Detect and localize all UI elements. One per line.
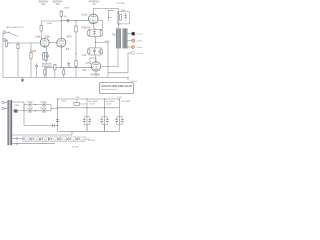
wire OPT B+ stub	[113, 34, 116, 36]
heater box B4	[50, 137, 58, 141]
tube V2 label	[53, 2, 63, 6]
fuse F1 dark	[14, 109, 17, 112]
wire bridge output	[51, 107, 58, 109]
heater box B7	[78, 137, 86, 141]
wire negative loop	[24, 111, 58, 126]
wire bridge top rail	[24, 104, 51, 106]
wire heater top link	[12, 134, 72, 136]
wire ground bus	[3, 76, 128, 78]
diode D2	[42, 103, 46, 107]
resistor R11	[88, 31, 90, 36]
svg-text:230V: 230V	[14, 105, 20, 107]
wire x31 drop	[30, 49, 32, 77]
wire heater row	[12, 138, 22, 140]
svg-text:1N 4007: 1N 4007	[40, 101, 47, 103]
red value labels psu rail	[88, 101, 131, 103]
svg-text:47u 450V: 47u 450V	[121, 101, 131, 103]
tube V3	[89, 14, 99, 24]
wire bias line A	[45, 66, 91, 68]
capacitor C7	[93, 49, 96, 51]
wire PSU ground bus	[58, 130, 120, 132]
capacitor C2 coupling	[67, 19, 68, 22]
svg-text:220k: 220k	[35, 37, 41, 39]
svg-text:470k 1W: 470k 1W	[82, 28, 92, 30]
wire plate rail y21	[41, 21, 61, 39]
filter cap C9	[53, 119, 59, 121]
wire cathode mid link	[95, 37, 97, 48]
heater box texts	[25, 139, 85, 141]
node 280V label	[64, 8, 70, 10]
tube V3 label	[89, 2, 100, 6]
potentiometer VR1	[6, 41, 10, 48]
ground symbol	[21, 77, 24, 81]
terminal 0 common	[132, 32, 135, 35]
resistor R2 B+ dropper	[60, 11, 62, 16]
filter cap pair C11	[98, 117, 109, 132]
wire bridge left vertical	[23, 105, 25, 111]
svg-text:V1b: V1b	[55, 4, 60, 6]
terminal 8 ohm	[131, 46, 134, 49]
snubber box Z1	[118, 12, 130, 24]
resistor R9 mid	[54, 64, 56, 77]
power transformer T1	[7, 100, 12, 145]
capacitor C3 cathode bypass V1	[44, 52, 49, 60]
wire V3 cathode drop	[92, 24, 94, 28]
svg-text:8 ohm: 8 ohm	[137, 47, 143, 49]
output cathode cluster upper	[88, 29, 103, 36]
wire PT to bridge	[12, 99, 119, 144]
wire V3 plate top run	[93, 9, 118, 29]
resistor R3 grid leak V3	[75, 26, 77, 32]
wire pot drop x18	[17, 43, 19, 77]
wire secondary common drop	[127, 53, 129, 73]
wire bridge right vertical	[50, 105, 52, 111]
svg-text:270V: 270V	[117, 97, 122, 99]
resistor RZ	[120, 14, 122, 20]
value label tap	[105, 41, 110, 43]
input jack J1	[3, 31, 9, 34]
title block	[99, 83, 133, 94]
blue node labels	[112, 34, 115, 36]
heater box links	[30, 138, 90, 140]
wire B+ feed vertical	[60, 10, 62, 38]
svg-text:1N 4007: 1N 4007	[26, 108, 33, 110]
resistor R6 cathode V1	[43, 53, 45, 60]
heater box red marks	[23, 138, 80, 140]
diode D4	[42, 109, 46, 113]
svg-text:0.22u: 0.22u	[82, 15, 88, 17]
AC terminal N	[2, 107, 8, 110]
terminal labels	[137, 34, 144, 55]
node OPT label	[116, 3, 125, 5]
svg-text:310V: 310V	[62, 100, 67, 102]
wire OPT secondary stubs	[127, 33, 131, 35]
AC terminal L	[2, 101, 8, 104]
svg-text:OPT 6k6: OPT 6k6	[116, 3, 125, 5]
wire gnd stub right	[127, 77, 129, 80]
node junction dots amp	[18, 13, 129, 78]
resistor R12b	[100, 49, 102, 54]
filter cap pair C12	[113, 117, 124, 125]
heater box B3	[41, 137, 49, 141]
svg-text:470k: 470k	[67, 37, 73, 39]
node B plus label	[53, 100, 67, 102]
value label rail	[47, 23, 53, 25]
svg-text:1k 2W: 1k 2W	[106, 103, 112, 105]
resistor R5 on x31	[30, 43, 32, 59]
output transformer T2	[116, 28, 127, 48]
wire cluster2 to V4 grid	[95, 55, 97, 62]
wire input to V1 grid	[8, 42, 40, 44]
input jack J2	[3, 39, 8, 42]
wire PSU filter drop x104.5	[104, 99, 106, 131]
svg-text:1N 4007: 1N 4007	[26, 101, 33, 103]
heater boxes row	[22, 137, 85, 141]
resistor R12	[88, 49, 90, 54]
tube V1 label	[39, 2, 49, 6]
wire coupling run to V3 grid	[61, 20, 88, 22]
wire tap drop x108	[107, 42, 109, 77]
wire jack ground drop x3	[2, 34, 4, 78]
value box VB1	[42, 63, 51, 66]
diode D3	[28, 109, 32, 113]
heater terminal A	[16, 138, 18, 140]
wire snubber links	[117, 12, 120, 14]
wire aux y72.8	[108, 72, 128, 74]
resistor R8 tail	[44, 67, 46, 77]
wire PSU filter drop x119.5	[119, 99, 121, 131]
filter cap pair C10	[80, 117, 91, 132]
wire grid-leak drop x76	[75, 21, 77, 78]
wire V4 plate run	[90, 58, 96, 62]
svg-text:AUX LINE IN Ch 1: AUX LINE IN Ch 1	[7, 26, 25, 29]
svg-text:150R 5W: 150R 5W	[90, 74, 100, 76]
bottom note	[72, 146, 79, 149]
wire V1-V2 link	[49, 42, 57, 44]
svg-text:6,3V 4A: 6,3V 4A	[72, 146, 79, 149]
wire V3 anode right stub	[98, 20, 102, 22]
wire PSU mid rail	[58, 107, 120, 109]
label PT red	[14, 105, 20, 107]
output cathode cluster lower	[88, 48, 103, 55]
tube V1	[40, 38, 49, 47]
wire cathode drop x46	[45, 47, 47, 77]
terminal 4 ohm	[132, 39, 135, 42]
heater link diodes	[30, 138, 77, 140]
resistor R10 grid leak lower	[75, 60, 77, 66]
heater box B6	[68, 137, 76, 141]
resistor R7 V2 cathode	[63, 67, 65, 77]
wire main B+ riser x57.5	[57, 99, 59, 131]
diode labels	[26, 101, 47, 110]
resistor R4 on x18	[17, 44, 19, 48]
wire cathode tap right	[96, 41, 108, 43]
svg-text:V1a: V1a	[41, 4, 46, 6]
svg-text:1N 4007: 1N 4007	[40, 108, 47, 110]
heater box B5	[59, 137, 67, 141]
svg-text:EL84 PP AMPLIFIER 2x12W: EL84 PP AMPLIFIER 2x12W	[101, 85, 132, 88]
svg-text:470R: 470R	[105, 41, 110, 43]
capacitor C4 left	[35, 63, 38, 77]
wire V2 cathode drop	[60, 47, 62, 67]
capacitor C6	[93, 31, 96, 33]
wire bridge bottom rail	[24, 110, 51, 112]
switch S1	[8, 32, 18, 36]
label above rail left	[76, 97, 80, 99]
fuse marks on negative loop	[53, 124, 55, 128]
node GND label	[131, 81, 138, 83]
wire B+ top rail	[58, 98, 120, 100]
heater box B1	[22, 137, 30, 141]
heater box B2	[32, 137, 40, 141]
diode D1	[28, 103, 32, 107]
label C2 value	[64, 16, 67, 18]
tube V2	[57, 38, 66, 47]
svg-text:1k 2W: 1k 2W	[89, 103, 95, 105]
resistor R1 plate V1	[40, 25, 42, 31]
capacitor CZ	[125, 15, 127, 17]
node left aux structure	[108, 10, 113, 21]
tube V4	[91, 62, 100, 78]
svg-text:280V: 280V	[64, 8, 70, 10]
capacitor C5 mid	[67, 62, 70, 68]
terminal 16 ohm	[131, 52, 134, 55]
svg-text:6,3V AC: 6,3V AC	[88, 139, 96, 142]
svg-text:100k: 100k	[45, 37, 51, 39]
svg-text:0 com: 0 com	[137, 34, 143, 36]
red value labels amp	[32, 15, 102, 77]
label above rail right	[117, 97, 122, 99]
resistor R11b	[100, 31, 102, 36]
svg-text:47n: 47n	[64, 16, 67, 18]
node junction dots psu	[35, 98, 120, 126]
svg-text:470k: 470k	[86, 63, 92, 65]
resistor R20 dropper	[74, 99, 87, 105]
svg-text:4 ohm: 4 ohm	[137, 41, 143, 43]
svg-text:16 ohm: 16 ohm	[137, 53, 144, 55]
heater terminal B	[16, 143, 18, 145]
wire PSU filter drop x87	[86, 99, 88, 131]
svg-text:www.tubeamp.hu: www.tubeamp.hu	[101, 88, 118, 91]
node SE label	[121, 10, 125, 12]
input label	[7, 26, 25, 29]
heater end label	[88, 139, 96, 142]
